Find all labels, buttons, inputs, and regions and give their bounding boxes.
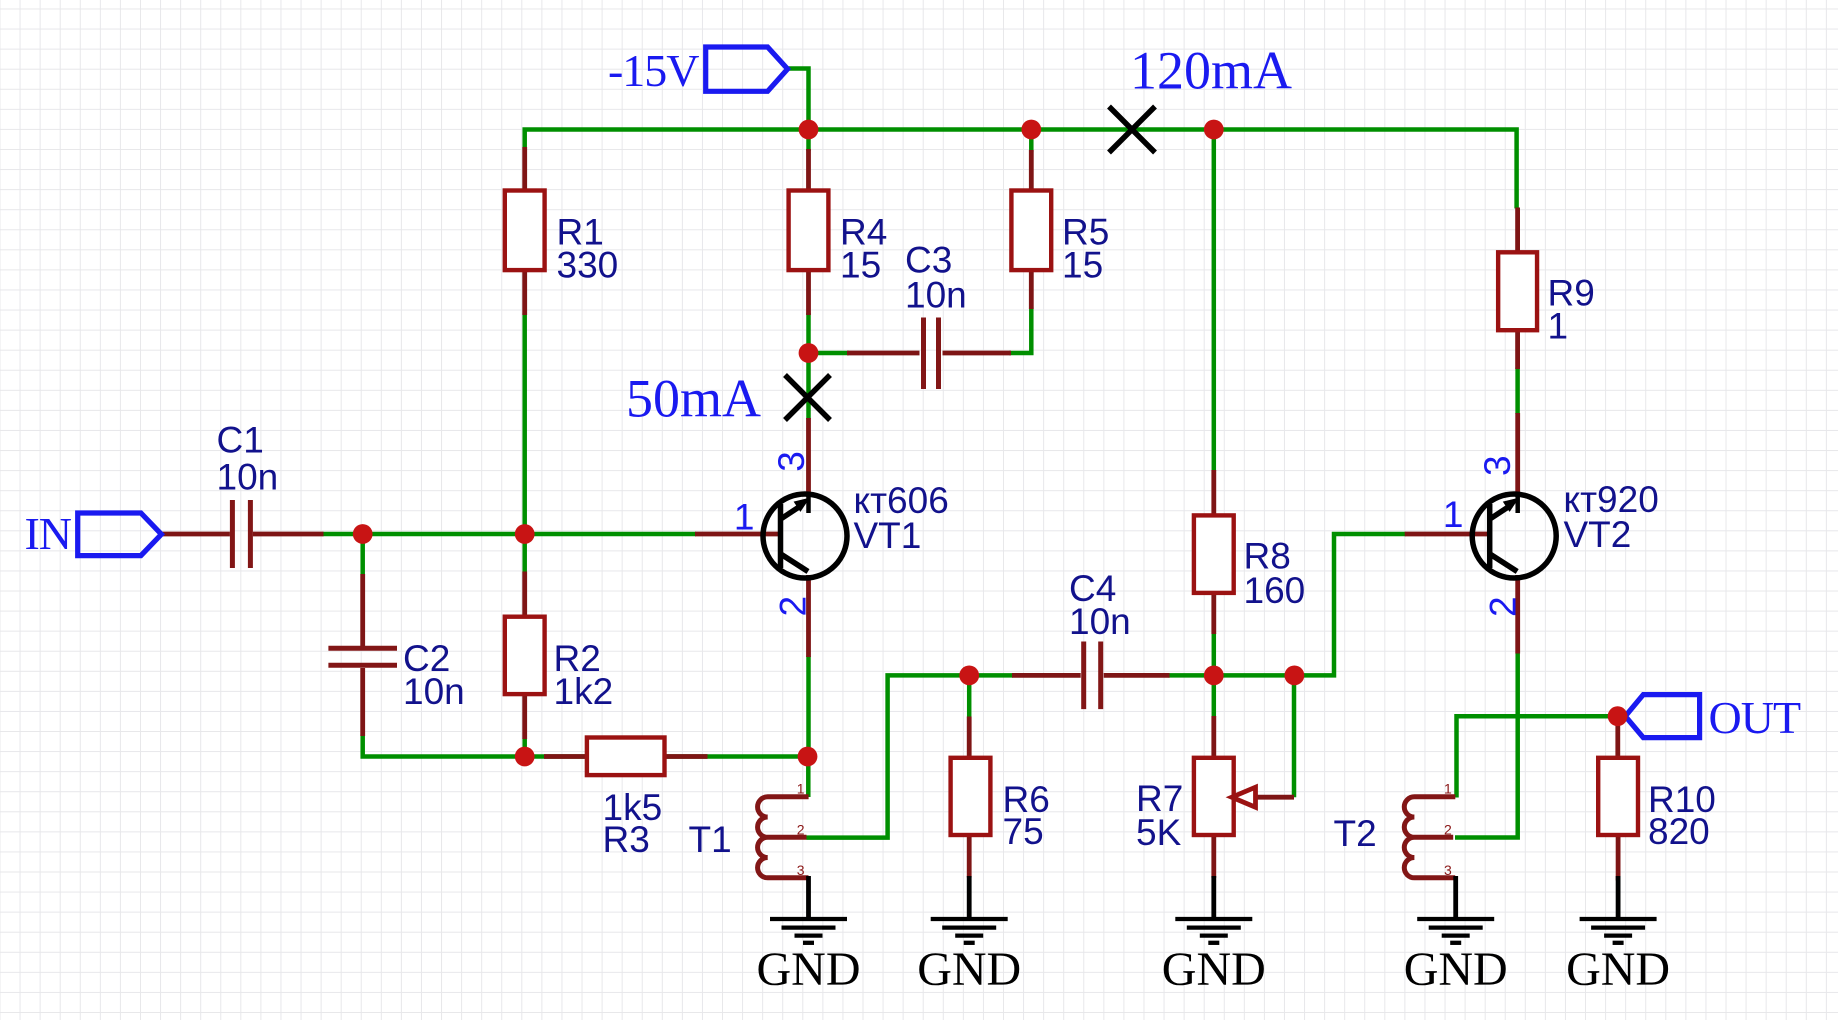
resistor R8 160 (1194, 515, 1234, 593)
wire node through 50mA ammeter to VT1 collector (806, 353, 811, 419)
ground symbol GND5 (under R10) (1580, 876, 1657, 943)
svg-text:GND: GND (917, 943, 1021, 996)
R1 top pin (522, 147, 527, 192)
svg-text:2: 2 (1444, 822, 1452, 838)
svg-text:10n: 10n (905, 275, 967, 316)
wire C2 bottom corner to R3 node (363, 735, 525, 757)
junction bus / R8 (1204, 120, 1224, 140)
svg-text:VT1: VT1 (854, 515, 922, 556)
R7 wiper arrow (1232, 787, 1256, 807)
wire from -15V flag to bus (788, 69, 809, 130)
wire R9 bottom to VT2 collector (1515, 368, 1520, 415)
ammeter cross 50mA (785, 375, 830, 420)
ground symbol GND3 (under R7) (1175, 876, 1252, 943)
wire R8 bottom to node (1212, 633, 1217, 675)
R10 top pin (1615, 723, 1620, 758)
transformer T1 winding (758, 797, 809, 878)
wire OUT row and T2 pin1 riser (1457, 716, 1618, 797)
global label IN (78, 513, 162, 556)
VT2 collector pin (1515, 413, 1520, 497)
ammeter cross 120mA (1109, 107, 1155, 153)
wire IN net horizontal (323, 532, 697, 537)
wire bus to R4 top (806, 130, 811, 152)
svg-text:160: 160 (1244, 570, 1306, 611)
wire node to C4 left (969, 673, 1013, 678)
VT2 emitter pin (1515, 575, 1520, 654)
svg-text:50mA: 50mA (626, 369, 761, 429)
potentiometer R7 5K (1194, 758, 1234, 835)
VT1 emitter pin (806, 575, 811, 657)
junction bus / R5 (1021, 120, 1041, 140)
junction C4 / R8 / R7 (1204, 666, 1224, 686)
R3 right pin (664, 754, 708, 759)
R3 left pin (544, 754, 587, 759)
C1 left pin with IN flag (161, 532, 230, 537)
resistor R1 330 (505, 191, 545, 271)
resistor R10 820 (1598, 758, 1638, 835)
wire R1 bottom to IN node (522, 313, 527, 534)
power flag -15V (706, 47, 788, 91)
R4 top pin (806, 149, 811, 192)
svg-text:R3: R3 (603, 819, 650, 860)
svg-text:330: 330 (557, 245, 619, 286)
transistor VT1 kt606 (763, 494, 847, 578)
junction R7 wiper / VT2 base net (1285, 666, 1305, 686)
wire VT1 emitter down to node (806, 656, 811, 757)
svg-text:3: 3 (1477, 455, 1518, 476)
R8 top pin (1211, 470, 1216, 516)
junction IN / R1 / R2 (515, 524, 535, 544)
svg-text:75: 75 (1003, 811, 1044, 852)
R5 top pin (1029, 150, 1034, 195)
capacitor C1 10n (232, 500, 250, 568)
svg-text:10n: 10n (217, 457, 279, 498)
wire R2 bottom to node (522, 738, 527, 757)
R4 bottom pin (806, 268, 811, 315)
svg-text:3: 3 (1444, 862, 1452, 878)
wire bus to R5 top (1029, 130, 1034, 153)
svg-text:GND: GND (1566, 943, 1670, 996)
wire node to C3 left (809, 351, 850, 356)
R9 top pin (1515, 208, 1520, 254)
svg-text:T2: T2 (1334, 813, 1377, 854)
wire C4 right to VT2 base corner (1169, 534, 1406, 675)
resistor R9 1 (1498, 252, 1537, 330)
wire VT2 emitter down and left to T2 pin2 (1455, 653, 1518, 838)
VT1 collector pin (806, 418, 811, 497)
wire T1 pin2 to C4 node (807, 675, 970, 837)
wire node to R2 top (522, 534, 527, 573)
svg-text:120mA: 120mA (1130, 41, 1292, 101)
ground symbol GND4 (under T2) (1417, 876, 1494, 943)
svg-text:-15V: -15V (608, 45, 699, 96)
resistor R5 15 (1011, 191, 1051, 271)
resistor R2 1k2 (505, 617, 545, 694)
wire C3 right to R5 bottom (1009, 307, 1031, 353)
svg-text:10n: 10n (1069, 601, 1131, 642)
svg-text:3: 3 (771, 451, 812, 472)
resistor R4 15 (789, 191, 829, 271)
svg-text:C1: C1 (217, 420, 264, 461)
wire R4 bottom to node (806, 313, 811, 353)
C4 left pin (1012, 673, 1081, 678)
R2 bottom pin (522, 694, 527, 739)
transistor VT2 kt920 (1472, 494, 1556, 578)
C2 bottom pin (360, 668, 365, 736)
svg-text:VT2: VT2 (1564, 514, 1632, 555)
svg-text:2: 2 (797, 822, 805, 838)
svg-text:IN: IN (24, 508, 71, 559)
junction IN / C2 (353, 524, 373, 544)
wire node to R6 top (967, 675, 972, 717)
svg-text:OUT: OUT (1709, 692, 1801, 743)
wire node to T1 pin1 (806, 757, 811, 798)
ground symbol GND1 (under T1) (770, 876, 847, 943)
svg-text:2: 2 (1482, 596, 1523, 617)
R7 top pin (1211, 716, 1216, 759)
junction C2 / R2 / R3 (515, 747, 535, 767)
svg-text:5K: 5K (1136, 812, 1182, 853)
svg-text:1: 1 (1548, 306, 1569, 347)
R1 bottom pin (522, 268, 527, 315)
R6 top pin (967, 717, 972, 759)
svg-text:15: 15 (1062, 245, 1103, 286)
C3 right pin (943, 351, 1012, 356)
wire R3 row (525, 754, 808, 759)
VT2 base pin (1405, 532, 1489, 537)
resistor R3 1k5 (horizontal) (587, 738, 665, 776)
transformer T2 winding (1404, 797, 1455, 878)
wire R7 wiper riser (1292, 675, 1297, 797)
wire node to R7 top (1212, 675, 1217, 717)
svg-text:GND: GND (757, 943, 861, 996)
VT1 base pin (695, 532, 779, 537)
resistor R6 75 (951, 758, 991, 835)
ground symbol GND2 (under R6) (931, 876, 1008, 943)
svg-text:T1: T1 (689, 819, 732, 860)
svg-text:GND: GND (1162, 943, 1266, 996)
wire top bus (525, 130, 1517, 209)
svg-text:2: 2 (773, 596, 814, 617)
capacitor C3 10n (924, 318, 939, 390)
R9 bottom pin (1515, 330, 1520, 370)
R8 bottom pin (1211, 592, 1216, 634)
PIN STUBS (dark red) (161, 147, 1619, 881)
svg-text:15: 15 (840, 245, 881, 286)
C4 right pin (1104, 673, 1170, 678)
R5 bottom pin (1029, 268, 1034, 309)
C2 top pin (360, 574, 365, 646)
global label OUT (1625, 695, 1699, 738)
R7 wiper lead (1255, 795, 1294, 800)
svg-text:10n: 10n (403, 671, 465, 712)
svg-text:1: 1 (1443, 494, 1464, 535)
junction OUT / R10 (1608, 706, 1628, 726)
wire bus to R8 top (1212, 130, 1217, 472)
junction R3 / VT1 emitter / T1 (798, 747, 818, 767)
junction -15V / bus / R4 (799, 120, 819, 140)
R2 top pin (522, 572, 527, 618)
junction T1 / R6 / C4 (959, 666, 979, 686)
capacitor C2 10n (horizontal plates) (328, 648, 397, 665)
svg-text:1: 1 (1444, 781, 1452, 797)
R6 bottom pin (967, 836, 972, 878)
R7 bottom pin (1211, 835, 1216, 878)
C3 left pin (847, 351, 920, 356)
capacitor C4 10n (1084, 642, 1101, 710)
C1 right pin (253, 532, 324, 537)
svg-text:1: 1 (734, 497, 755, 538)
svg-text:GND: GND (1404, 943, 1508, 996)
junction R4 / C3 / ammeter (799, 343, 819, 363)
R10 bottom pin (1616, 836, 1621, 881)
svg-text:820: 820 (1648, 811, 1710, 852)
wire IN node down to C2 (360, 534, 365, 575)
svg-text:1k2: 1k2 (554, 671, 614, 712)
svg-text:1: 1 (797, 781, 805, 797)
svg-text:3: 3 (797, 862, 805, 878)
